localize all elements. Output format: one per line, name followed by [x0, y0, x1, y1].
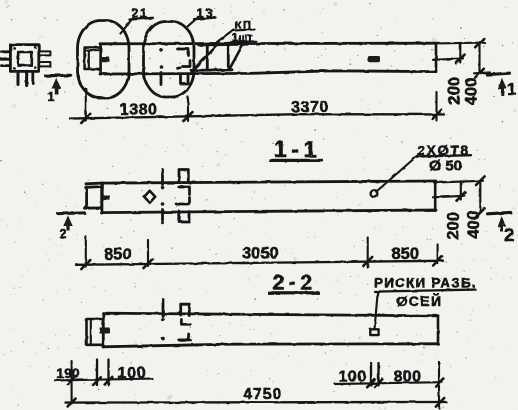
svg-text:850: 850	[392, 245, 420, 263]
section cut marker 2 left: bar	[58, 211, 85, 215]
label 13 underline	[194, 18, 216, 20]
dim tick 1	[81, 114, 90, 123]
section cut marker 1 left: arrow	[52, 78, 61, 95]
svg-text:800: 800	[394, 368, 422, 385]
1-1 right: dim line 400	[479, 181, 481, 214]
2-2 left tenon bracket	[87, 319, 104, 345]
RISKI underline	[375, 290, 475, 292]
KP parallelogram right slant	[230, 43, 244, 69]
2X0T8 underline	[416, 155, 471, 156]
svg-text:3370: 3370	[291, 99, 329, 116]
section cut marker 1 right: arrow	[498, 78, 507, 96]
dim tick 2	[184, 112, 193, 121]
2-2 beam top edge	[103, 313, 438, 316]
1-1 beam left end	[100, 183, 103, 213]
2-2 joint dashed corner top	[181, 320, 190, 325]
cross-section bottom rebar 2	[25, 71, 28, 85]
svg-text:2: 2	[60, 227, 67, 241]
2-2 underline	[268, 291, 320, 294]
svg-text:21: 21	[132, 7, 149, 21]
2-2 joint P tab above	[181, 304, 190, 315]
svg-text:ØСЕЙ: ØСЕЙ	[397, 292, 443, 309]
section cut marker 1 left: bar	[46, 74, 71, 77]
top view beam right end	[435, 43, 438, 71]
top view beam bottom edge	[100, 71, 436, 74]
1-1 dim ext 3	[367, 238, 369, 268]
top view beam left end	[99, 44, 102, 74]
dim ext line right	[435, 92, 437, 121]
1-1 dim ticks	[81, 260, 90, 269]
ticks slashes left	[93, 377, 101, 385]
svg-text:Ø 50: Ø 50	[430, 157, 463, 174]
1-1 dim ext 2	[147, 240, 149, 266]
2-2 beam bottom edge	[103, 344, 438, 347]
1-1 right: ext mid	[433, 196, 464, 198]
1-1 underline	[269, 159, 323, 162]
1-1 hole leader	[377, 156, 418, 192]
1-1 dim ext 1	[85, 237, 87, 267]
KP embed plate parallelogram left slant	[192, 44, 220, 72]
cross-section bottom rebar 1	[16, 71, 19, 84]
1-1 joint dashed corner top	[179, 187, 190, 195]
2-2 beam left end	[102, 313, 105, 347]
1-1 joint dashed corner bottom	[180, 198, 190, 205]
dim 4750 line	[66, 401, 447, 404]
section cut marker 2 right: arrow	[497, 216, 506, 232]
2-2 axis mark square	[370, 329, 378, 335]
svg-text:190: 190	[56, 365, 80, 381]
dim tick 3	[433, 110, 442, 119]
top view right: ext top	[436, 42, 485, 45]
top view joint dashed corner bottom	[183, 61, 191, 67]
label KP underline	[233, 29, 255, 30]
1-1 tenon nub	[102, 195, 110, 200]
2-2 tick pair right	[370, 363, 372, 386]
1-1 right: dim line 200	[460, 181, 462, 199]
cross-section bottom rebar 3	[31, 71, 34, 83]
top view right: ext mid 200	[433, 58, 463, 59]
1-1 joint dots	[161, 186, 165, 224]
KP parallelogram vertical 1	[206, 45, 209, 69]
dim ext line mid	[187, 97, 189, 121]
1-1 beam bottom edge	[101, 210, 436, 213]
section cut marker 2 right: bar	[488, 212, 511, 213]
top view left tenon bracket	[85, 48, 100, 69]
top view tenon nub (filled)	[101, 57, 110, 62]
svg-text:1-1: 1-1	[274, 136, 321, 162]
svg-text:РИСКИ РАЗБ.: РИСКИ РАЗБ.	[374, 276, 477, 291]
1-1 strap hole circle	[371, 190, 378, 197]
detail ellipse 21	[78, 21, 130, 99]
section cut marker 2 left: arrow	[63, 215, 72, 230]
2-2 beam right end	[437, 316, 440, 344]
svg-text:13: 13	[197, 6, 215, 20]
top view strap mark (filled blob)	[368, 56, 380, 62]
cross-section corner dots	[13, 46, 37, 70]
top view right: dim line 200	[459, 43, 461, 63]
label 13 leader	[188, 18, 197, 26]
svg-text:1: 1	[48, 90, 55, 104]
top view right: dim line 400	[478, 43, 480, 74]
2-2 left ext	[71, 361, 73, 404]
label 21 leader	[121, 19, 133, 34]
section cut marker 1 right: bar	[487, 73, 510, 74]
2-2 right ext	[438, 362, 440, 408]
svg-text:850: 850	[104, 245, 132, 263]
svg-text:2ХØТ8: 2ХØТ8	[417, 142, 470, 158]
svg-text:1380: 1380	[120, 101, 158, 118]
top view joint tick below beam	[160, 73, 163, 85]
2-2 joint tick above	[162, 300, 165, 317]
svg-text:1шт: 1шт	[232, 32, 253, 44]
1-1 joint U tab below	[179, 212, 189, 222]
svg-text:4750: 4750	[243, 386, 282, 403]
label 21 underline	[130, 18, 154, 20]
KP parallelogram thick top	[199, 42, 247, 47]
2-2 tenon nub	[100, 328, 110, 334]
1-1 left tenon bracket	[85, 187, 102, 209]
1-1 right: ext top	[434, 181, 483, 183]
top view joint U tab below beam	[181, 75, 189, 84]
1-1 dim ext 4	[437, 245, 439, 264]
1-1 joint tick above	[161, 170, 164, 185]
dim 1380/3370 line	[70, 114, 444, 118]
svg-text:1: 1	[507, 79, 516, 98]
svg-text:100: 100	[339, 368, 367, 385]
svg-text:400: 400	[465, 211, 483, 239]
svg-text:200: 200	[445, 212, 463, 240]
top view joint dots	[160, 49, 164, 69]
1-1 dim line 850/3050/850	[76, 261, 443, 265]
ticks slashes right	[367, 380, 375, 388]
1-1 beam right end	[434, 181, 437, 210]
1-1 lifting hole diamond	[144, 191, 155, 203]
2-2 tick pair left	[96, 360, 98, 386]
axis mark leader	[375, 292, 378, 330]
KP parallelogram bottom edge	[192, 68, 233, 71]
top view right dim ticks	[456, 55, 465, 64]
1-1 right dim ticks	[457, 192, 466, 201]
dim ext line left	[85, 89, 87, 121]
2-2 joint dots	[161, 318, 165, 340]
column cross-section inner square	[18, 52, 32, 66]
svg-text:3050: 3050	[242, 244, 279, 262]
cross-section left rebar 1	[2, 50, 11, 53]
1-1 joint P tab above	[179, 170, 188, 181]
svg-text:200: 200	[445, 77, 463, 105]
svg-text:КП: КП	[235, 20, 253, 32]
column cross-section outer square	[10, 45, 38, 72]
top view joint dashed corner top	[178, 49, 189, 56]
cross-section left rebar 2	[1, 58, 10, 61]
2-2 joint dashed corner bottom	[179, 334, 190, 340]
cross-section left rebar 3	[2, 64, 11, 67]
svg-text:100: 100	[118, 365, 147, 382]
cross-section right rebar 1	[39, 51, 51, 55]
svg-text:2-2: 2-2	[273, 271, 317, 295]
label KP leader	[217, 30, 234, 43]
label 1sht underline	[232, 40, 257, 43]
detail ellipse 13	[144, 22, 195, 98]
1-1 joint tick below	[161, 210, 164, 221]
1-1 beam top edge	[86, 181, 436, 184]
top view beam top edge	[100, 42, 436, 45]
svg-text:400: 400	[463, 77, 481, 105]
KP parallelogram vertical 2	[227, 46, 230, 70]
top view right: ext bottom	[474, 71, 490, 74]
cross-section right rebar 2	[39, 62, 51, 66]
svg-text:2: 2	[504, 225, 514, 245]
2-2 left upper dim line	[55, 379, 152, 381]
2-2 right upper dim line	[335, 382, 442, 384]
